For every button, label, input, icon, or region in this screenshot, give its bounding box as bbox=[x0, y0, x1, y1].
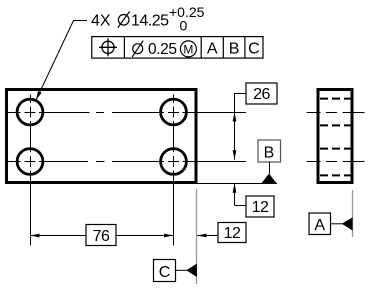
center line column right bbox=[173, 95, 175, 246]
material condition modifier M bbox=[180, 41, 196, 57]
feature control frame cell dividers bbox=[124, 37, 244, 59]
svg-text:B: B bbox=[264, 145, 275, 162]
dimension 12 vertical line and arrow bbox=[233, 183, 246, 205]
hidden line hole top lower bbox=[320, 124, 351, 126]
feature control frame outline bbox=[92, 37, 263, 59]
svg-text:A: A bbox=[314, 217, 325, 234]
position symbol bbox=[99, 38, 117, 56]
center line row 2 bbox=[8, 161, 246, 163]
svg-text:A: A bbox=[207, 41, 218, 58]
hidden line hole bottom lower bbox=[320, 174, 351, 176]
side view center line bottom row bbox=[307, 161, 365, 163]
datum B symbol bbox=[258, 140, 281, 183]
datum A extension line (gray) bbox=[352, 190, 354, 237]
svg-text:0: 0 bbox=[180, 18, 188, 34]
hole bottom-right bbox=[161, 149, 187, 175]
svg-text:C: C bbox=[248, 41, 260, 58]
svg-text:C: C bbox=[159, 264, 171, 281]
dimension 12 horizontal box bbox=[218, 223, 246, 243]
leader line from hole note bbox=[36, 21, 87, 101]
center line column left bbox=[30, 95, 32, 246]
dimension 12 vertical box bbox=[246, 196, 274, 217]
hole bottom-left bbox=[17, 149, 43, 175]
side view plate outline bbox=[318, 90, 352, 183]
hole top-left bbox=[17, 99, 43, 125]
svg-text:M: M bbox=[183, 42, 193, 56]
hole top-right bbox=[161, 99, 187, 125]
dimension 26 line and arrows bbox=[233, 93, 246, 160]
svg-text:4X: 4X bbox=[91, 13, 111, 30]
datum C extension line (gray) bbox=[196, 189, 198, 284]
svg-text:0.25: 0.25 bbox=[148, 41, 177, 58]
svg-text:12: 12 bbox=[224, 225, 241, 242]
diameter symbol in FCF bbox=[132, 41, 143, 57]
datum A symbol bbox=[309, 213, 353, 235]
hidden line hole top upper bbox=[320, 98, 351, 100]
dimension 12 horizontal line and arrow bbox=[197, 234, 218, 238]
datum C symbol bbox=[154, 260, 197, 282]
svg-text:76: 76 bbox=[93, 228, 110, 245]
hole note text 4X dia 14.25 bbox=[91, 4, 205, 34]
front view plate outline bbox=[7, 90, 197, 183]
dimension 76 line and arrows bbox=[30, 234, 174, 238]
side view center line top row bbox=[307, 112, 365, 114]
svg-text:26: 26 bbox=[253, 86, 270, 103]
svg-text:B: B bbox=[229, 41, 240, 58]
svg-text:14.25: 14.25 bbox=[131, 13, 169, 30]
dimension 76 box bbox=[86, 225, 116, 246]
dimension 26 box bbox=[246, 83, 277, 104]
svg-text:12: 12 bbox=[252, 199, 269, 216]
hidden line hole bottom upper bbox=[320, 148, 351, 150]
bottom edge extension line bbox=[197, 183, 277, 185]
center line row 1 bbox=[8, 112, 246, 114]
